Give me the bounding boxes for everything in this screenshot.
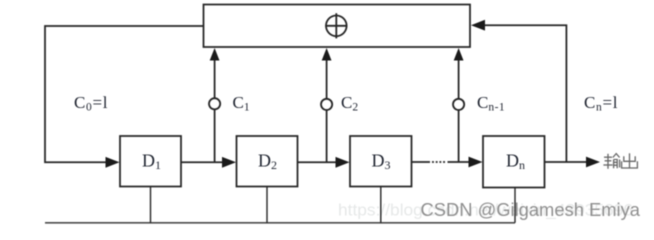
bus riser under D2 [266,187,268,223]
svg-text:D3: D3 [372,150,391,172]
wire: D3 to Dn with ellipsis dashes [412,161,431,163]
svg-text:C2: C2 [341,93,358,114]
wire: C1 tap riser [214,109,216,162]
arrowhead C2 into XOR box [322,48,332,61]
coefficient tap circle C2 [321,99,332,110]
XOR summer box [204,5,471,48]
arrowhead into D3 [336,157,350,168]
svg-text:D1: D1 [142,150,161,172]
svg-text:C0=l: C0=l [74,93,108,114]
glyph 出 [629,153,631,168]
bus riser under D3 [380,187,382,223]
wire: D2 to D3 [298,161,339,163]
XOR gate symbol [325,13,347,38]
wire: C2 tap riser [326,110,328,163]
register D1 [120,136,181,187]
bus riser under Dn [514,188,516,223]
svg-text:Cn=l: Cn=l [584,93,618,114]
glyph 输 [604,156,612,158]
arrowhead into D1 [106,157,120,168]
arrowhead into Dn [469,157,483,168]
arrowhead into D2 [222,157,236,168]
svg-text:CSDN @Gilgamesh Emiya: CSDN @Gilgamesh Emiya [421,199,641,220]
label output (Chinese 输出 drawn as strokes) [603,153,637,169]
arrowhead to output [586,157,600,168]
register D2 [237,136,298,187]
wire: Cn-1 tap riser [458,110,460,162]
svg-text:D2: D2 [258,150,277,172]
bottom clock bus [45,187,515,223]
arrowhead C1 into XOR box [210,48,220,61]
wire: Dn to output [545,161,588,163]
arrowhead Cn-1 into XOR box [454,48,464,61]
coefficient tap circle Cn-1 [453,99,464,110]
register Dn [483,136,545,188]
arrowhead into XOR box right side [471,20,485,31]
svg-text:Dn: Dn [506,150,525,172]
svg-text:Cn-1: Cn-1 [477,93,505,114]
register D3 [350,136,412,187]
wire: D1 to D2 [181,161,225,163]
bus riser under D1 [150,187,152,223]
coefficient tap circle C1 [209,98,220,109]
wire: left feedback (top horizontal + left vertical + into D1) [45,26,204,162]
svg-text:C1: C1 [233,93,250,114]
wire: right feedback from output node up into XOR box [484,25,566,162]
